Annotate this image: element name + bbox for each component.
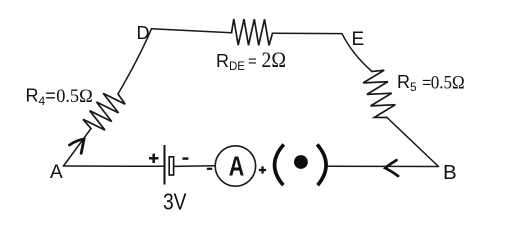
svg-text:0.5Ω: 0.5Ω [431,72,465,93]
ammeter minus sign [207,168,212,170]
resistor RDE [232,19,273,45]
battery short plate (negative, hollow rect) [169,157,173,175]
svg-text:D: D [137,23,150,43]
battery minus sign [183,157,189,159]
resistor R4 [83,93,125,130]
wire E to R5 (right upper diagonal) [342,34,372,72]
lamp filament dot [294,155,308,169]
svg-text:=: = [248,53,257,70]
wire D to R4 (left upper diagonal) [118,29,152,94]
wire R5 to B (right lower diagonal) [387,118,439,167]
wire RDE to E (top right horizontal) [273,32,343,34]
arrow on wire A-R4 (current direction up-right) [70,139,85,153]
svg-text:3V: 3V [163,189,187,215]
battery plus sign [149,154,158,163]
svg-text:A: A [50,162,63,183]
lamp left parenthesis [275,144,284,185]
wire B to lamp (bottom right horizontal) [328,165,439,167]
lamp right parenthesis [317,144,326,185]
resistor R5 [363,70,395,117]
wire A to R4 (left lower diagonal with arrow shaft) [64,129,92,167]
svg-text:A: A [229,150,245,181]
svg-text:E: E [352,29,365,50]
wire D to RDE (top left horizontal) [152,29,232,33]
ammeter plus sign [259,166,266,173]
arrow on bottom wire near B (pointing left) [385,160,398,176]
wire A to battery (bottom left horizontal) [64,165,164,167]
svg-text:0.5Ω: 0.5Ω [56,86,92,107]
wire battery to ammeter [174,165,215,168]
battery long plate (positive) [164,145,166,185]
ammeter circle U1 [215,146,255,186]
svg-text:2Ω: 2Ω [262,47,287,72]
svg-text:B: B [443,161,457,184]
